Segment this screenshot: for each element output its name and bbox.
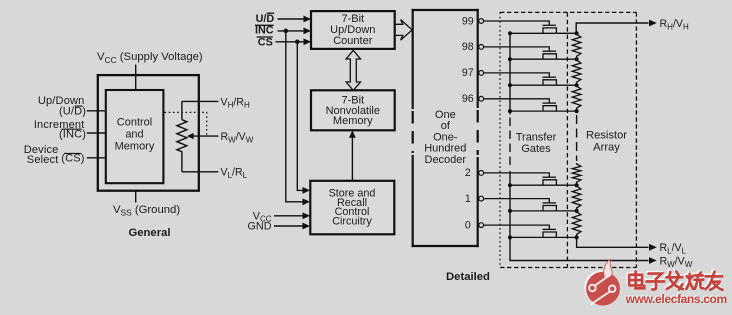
potentiometer RPOT bottom lead (181, 153, 183, 172)
wire gate control 99 (484, 21, 550, 25)
transfer gate 98 (543, 50, 557, 52)
watermark logo disc (586, 272, 620, 306)
wire gate control 2 (484, 173, 550, 177)
svg-text:99: 99 (462, 15, 474, 27)
wire rail 96 (510, 110, 577, 112)
RH riser and output (576, 23, 648, 33)
bus arrow counter to decoder (395, 20, 412, 40)
wire gate control 1 (484, 199, 550, 203)
potentiometer RPOT zigzag (177, 120, 187, 153)
svg-text:One: One (435, 109, 456, 121)
wire gate control 98 (484, 47, 550, 51)
junction tap 1 (575, 209, 579, 213)
wire rail 98 (510, 58, 577, 60)
overbar D (267, 12, 275, 14)
dashed enclosure transfer gates + resistor array (500, 12, 636, 267)
junction bus 0 (508, 235, 512, 239)
watermark logo white underlay (584, 270, 618, 304)
svg-text:GND: GND (248, 221, 272, 233)
watermark CJK text red layer (629, 271, 722, 289)
junction tap 96 (575, 109, 579, 113)
svg-text:General: General (128, 227, 170, 239)
junction bus 99 (508, 31, 512, 35)
transfer gate 1 (543, 202, 557, 204)
enclosure right dashed edge (635, 12, 637, 267)
overbar CS (257, 36, 273, 38)
RL tail and output (577, 237, 649, 247)
wire rail 2 (510, 184, 577, 186)
junction bus 1 (508, 209, 512, 213)
svg-text:Decoder: Decoder (425, 154, 467, 166)
overbar D of (U/D) (75, 105, 83, 107)
wire gate control 96 (484, 99, 550, 103)
svg-text:Memory: Memory (333, 115, 373, 127)
resistor segment Rmid (572, 163, 581, 185)
junction bus 96 (508, 109, 512, 113)
svg-text:Control: Control (117, 117, 152, 129)
wire INC to counter (278, 30, 306, 32)
decoder block (412, 9, 479, 247)
svg-text:CS: CS (258, 36, 273, 48)
wire U/D to counter (278, 18, 306, 20)
wire VH/RH (182, 100, 219, 102)
resistor segment R97 (572, 85, 581, 111)
enclosure bottom dashed edge (500, 267, 636, 269)
store and recall block (310, 181, 394, 235)
transfer gate 97 (543, 76, 557, 78)
wire CS input (87, 157, 106, 159)
watermark logo flame (604, 259, 613, 277)
control and memory block (106, 90, 164, 183)
transfer gate 2 (543, 176, 557, 178)
overbar CS (64, 152, 81, 154)
svg-text:Array: Array (593, 141, 620, 153)
wire VL/RL (182, 171, 219, 173)
svg-text:and: and (125, 129, 143, 141)
svg-text:www.elecfans.com: www.elecfans.com (625, 292, 727, 306)
junction bus 98 (508, 57, 512, 61)
svg-text:0: 0 (465, 219, 471, 231)
wiper bus (509, 33, 511, 114)
svg-text:INC: INC (255, 25, 274, 37)
svg-text:Counter: Counter (333, 35, 372, 47)
wire VSS stem (135, 191, 137, 203)
outer box U1 package (98, 75, 199, 191)
junction tap 2 (575, 183, 579, 187)
resistor segment R2 (572, 185, 581, 211)
svg-text:Gates: Gates (521, 143, 551, 155)
junction tap 0 (575, 235, 579, 239)
wire rail 1 (510, 210, 577, 212)
wire gate control 97 (484, 73, 550, 77)
svg-text:96: 96 (462, 93, 474, 105)
svg-text:97: 97 (462, 67, 474, 79)
svg-text:(CS): (CS) (61, 153, 84, 165)
memory block (311, 90, 395, 130)
watermark CJK text white layer (628, 270, 721, 288)
junction tap 98 (575, 57, 579, 61)
wire INC riser to store (286, 31, 304, 202)
wire VCC stem (135, 65, 137, 91)
wire VCC to store (274, 215, 304, 217)
transfer gate 0 (543, 228, 557, 230)
junction bus 2 (508, 183, 512, 187)
svg-text:98: 98 (462, 41, 474, 53)
dotted control link (165, 112, 207, 136)
divider dashed edge (566, 12, 568, 267)
svg-text:Hundred: Hundred (424, 143, 466, 155)
junction tap 99 (575, 31, 579, 35)
svg-text:(INC): (INC) (59, 128, 86, 140)
watermark logo trace art (589, 275, 615, 304)
svg-text:of: of (441, 120, 451, 132)
svg-text:Select: Select (27, 154, 59, 166)
junction INC (284, 29, 289, 34)
resistor segment R1 (572, 211, 581, 238)
wire GND to store (274, 225, 304, 227)
junction tap 97 (575, 83, 579, 87)
svg-text:(U/D): (U/D) (59, 105, 86, 117)
enclosure top dashed edge (500, 11, 636, 13)
potentiometer RPOT top lead (181, 101, 183, 119)
hollow double arrow counter-memory (346, 50, 360, 90)
svg-text:U/D: U/D (256, 13, 275, 25)
transfer gate 99 (543, 24, 557, 26)
enclosure left dotted edge (499, 12, 501, 267)
wire rail 97 (510, 84, 577, 86)
svg-text:One-: One- (433, 131, 458, 143)
wire store to memory arrow (351, 135, 353, 181)
svg-text:Memory: Memory (115, 141, 155, 153)
svg-text:Detailed: Detailed (446, 271, 490, 283)
svg-text:Circuitry: Circuitry (332, 216, 372, 228)
resistor segment R99 (572, 33, 581, 59)
counter block (311, 11, 395, 49)
svg-text:Resistor: Resistor (586, 129, 627, 141)
resistor segment R98 (572, 59, 581, 85)
svg-text:2: 2 (465, 167, 471, 179)
wire INC input (87, 132, 106, 134)
transfer gate 96 (543, 102, 557, 104)
svg-text:Transfer: Transfer (516, 132, 557, 144)
junction CS (295, 40, 300, 45)
wire CS riser to store (297, 42, 304, 191)
resistor array dashed continuation (576, 115, 578, 161)
junction bus 97 (508, 83, 512, 87)
wire rail 99 (510, 32, 577, 34)
wire gate control 0 (484, 225, 550, 229)
wiper arrow (190, 135, 219, 137)
wire U/D input (87, 110, 106, 112)
svg-text:1: 1 (465, 193, 471, 205)
wire rail 0 (510, 236, 577, 238)
overbar INC (62, 128, 82, 130)
wire CS to counter (276, 41, 306, 43)
overbar INC (255, 24, 274, 26)
